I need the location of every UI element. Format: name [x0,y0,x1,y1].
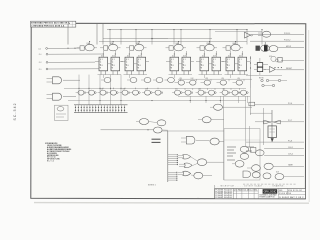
svg-text:S 1: S 1 [213,59,216,61]
svg-text:S 1: S 1 [239,59,242,61]
svg-text:PCLR-2: PCLR-2 [284,39,290,41]
svg-text:D 30542 SHT 2 OF 2: D 30542 SHT 2 OF 2 [279,197,304,199]
svg-text:T: T [100,68,101,70]
svg-text:T: T [213,68,214,70]
pulse gate row unit 7 dark [256,45,270,51]
spare gate box [55,105,69,120]
output net stub line y60 [271,56,304,62]
svg-text:T: T [183,68,184,70]
svg-text:R 0: R 0 [138,65,141,67]
revision table [31,21,76,27]
svg-text:J1-4: J1-4 [38,48,41,50]
connector P1 pins [168,131,178,182]
pulse gate row [77,41,244,51]
title block left note [197,197,199,199]
svg-text:PC-6: PC-6 [288,103,292,105]
gate U40 and [181,136,210,144]
polarity arrow [271,138,274,142]
jumper bars W1 W2 [152,139,161,142]
gate U52 [275,172,304,180]
gate U30 [210,104,252,110]
sheet note bottom centre [148,184,156,186]
output net stub line y34 [253,33,304,35]
gate U22 nand [269,46,278,52]
svg-text:NOTES: 1: NOTES: 1 [148,184,156,186]
gate U49 [247,165,260,172]
vertical bus x223 [224,97,250,181]
capacitor C1 polarized [264,42,268,51]
svg-text:R 0: R 0 [112,65,115,67]
driver trunk wire [249,88,272,145]
svg-text:R 0: R 0 [183,65,186,67]
gate U21 nor [258,31,271,37]
svg-text:U19: U19 [213,55,216,57]
svg-text:J1-6: J1-6 [39,54,42,56]
sheet border frame [31,23,306,199]
svg-text:R 0: R 0 [100,65,103,67]
termination cluster [259,78,287,87]
title block [215,188,306,199]
connector P2 pins [168,172,178,181]
wire y131 [162,130,224,132]
gate U47 [232,161,244,168]
svg-text:MCLR: MCLR [286,46,292,48]
net wire y155 [264,154,304,156]
gate U44 nand [191,157,224,166]
gate row y84 right ovals [175,78,243,85]
svg-text:U18: U18 [276,172,279,174]
svg-text:B REVISED PER ECO 4021 SEE SH: B REVISED PER ECO 4021 SEE SH 1 [31,22,69,25]
svg-text:R 0: R 0 [171,65,174,67]
svg-text:S 1: S 1 [201,59,204,61]
svg-text:T: T [138,68,139,70]
gate U31 [198,117,224,123]
svg-text:J1-8: J1-8 [39,62,42,64]
row interconnect wire y88 [64,87,246,89]
gate U32 pair [136,119,166,126]
svg-text:CLK-2: CLK-2 [288,154,293,156]
svg-text:R 0: R 0 [239,65,242,67]
gate row y93 designators [101,88,226,91]
svg-text:CLK-1: CLK-1 [288,147,293,149]
net wire y142 [246,141,304,143]
wire y130 with component [101,127,169,133]
svg-text:T: T [126,68,127,70]
svg-text:GATE: GATE [288,164,294,167]
subcircuit boundary box [224,129,260,180]
svg-text:R5 R6: R5 R6 [259,78,264,80]
dashed wire y184 [243,183,296,185]
input terminal J4 wire [46,68,99,70]
svg-text:U17: U17 [138,55,141,57]
svg-text:T: T [112,68,113,70]
gate U51 [243,171,271,179]
svg-text:R 0: R 0 [227,65,230,67]
svg-text:U18: U18 [183,55,186,57]
svg-text:S 1: S 1 [171,59,174,61]
svg-text:T: T [171,68,172,70]
output net stub line y41 [250,39,304,41]
gate U42 or [178,154,191,159]
gate U45 or [178,171,191,176]
net wire y148 [264,147,304,149]
resistor network RN1 [74,105,128,113]
svg-text:S 1: S 1 [227,59,230,61]
svg-text:R12 C4: R12 C4 [47,161,54,163]
input terminal J2 wire [46,53,103,55]
comb riser wires [68,75,246,105]
output net stub line y70 [276,68,304,70]
second top bus segment [103,31,262,38]
svg-text:SIZE: SIZE [279,190,282,192]
gate U23 buffer [264,67,275,73]
svg-text:GRI LOGIC: GRI LOGIC [264,190,277,194]
svg-text:S 1: S 1 [183,59,186,61]
sheet scan shadow [34,30,309,203]
stage 6 register cluster [246,56,282,88]
svg-text:SC-542: SC-542 [13,103,17,120]
net wire y166 [273,164,304,167]
svg-text:R 0: R 0 [201,65,204,67]
flip-flop stage blocks row [95,51,250,78]
svg-text:T: T [227,68,228,70]
gate U20 buffer [245,32,253,38]
svg-text:R 0: R 0 [213,65,216,67]
gate U8 and [47,77,81,84]
diode CR1 [264,120,271,124]
svg-text:S 1: S 1 [100,59,103,61]
gate U48 cluster [240,146,264,159]
left margin vertical doc number [13,103,17,120]
svg-text:S 1: S 1 [138,59,141,61]
svg-text:S 1: S 1 [126,59,129,61]
svg-text:U10: U10 [101,55,104,57]
svg-text:U19: U19 [269,56,272,58]
svg-text:J1-9: J1-9 [39,69,42,71]
net label y141 [288,140,292,142]
gate row y93 ovals [76,90,249,95]
input terminal J1 wire [46,48,80,50]
gate U43 or [179,163,192,168]
input terminal J3 wire [46,61,95,63]
net wire y105 [255,103,304,105]
svg-text:T: T [239,68,240,70]
inter-row vertical wires [178,79,250,103]
svg-text:U13: U13 [202,55,205,57]
notes text block [45,142,72,163]
svg-text:U14: U14 [228,55,231,57]
gate U41 nor [210,138,224,145]
svg-text:U12: U12 [172,55,175,57]
row interconnect wire y79 [178,78,252,80]
svg-text:T: T [201,68,202,70]
gate-row bus y41.5 [99,38,247,42]
svg-text:DWG NO 30-542: DWG NO 30-542 [288,190,302,192]
gate row y78 ovals [101,77,174,82]
svg-text:C REVISED PER ECO 4188 Z-4: C REVISED PER ECO 4188 Z-4 [31,24,65,27]
svg-text:RESET: RESET [286,68,293,70]
top horizontal bus [107,29,248,31]
svg-text:PCLR-1: PCLR-1 [284,33,290,35]
svg-text:U20: U20 [239,55,242,57]
net wire y121 [255,121,304,123]
relay K1 coil [268,126,276,138]
microfilm text row [215,184,288,188]
net label y121 [288,120,292,122]
bus vertical drop wires [68,24,263,45]
gate U46 nand [191,172,212,179]
diode CR2 [273,120,280,124]
svg-text:S 1: S 1 [112,59,115,61]
svg-text:U16: U16 [112,55,115,57]
gate U50 [264,163,273,169]
input terminal labels [38,48,42,71]
output net stub line y47 [278,46,304,48]
subcircuit inner labels [227,147,254,160]
gate U9 and [47,93,77,100]
svg-text:U11: U11 [127,55,130,57]
svg-text:R 0: R 0 [126,65,129,67]
